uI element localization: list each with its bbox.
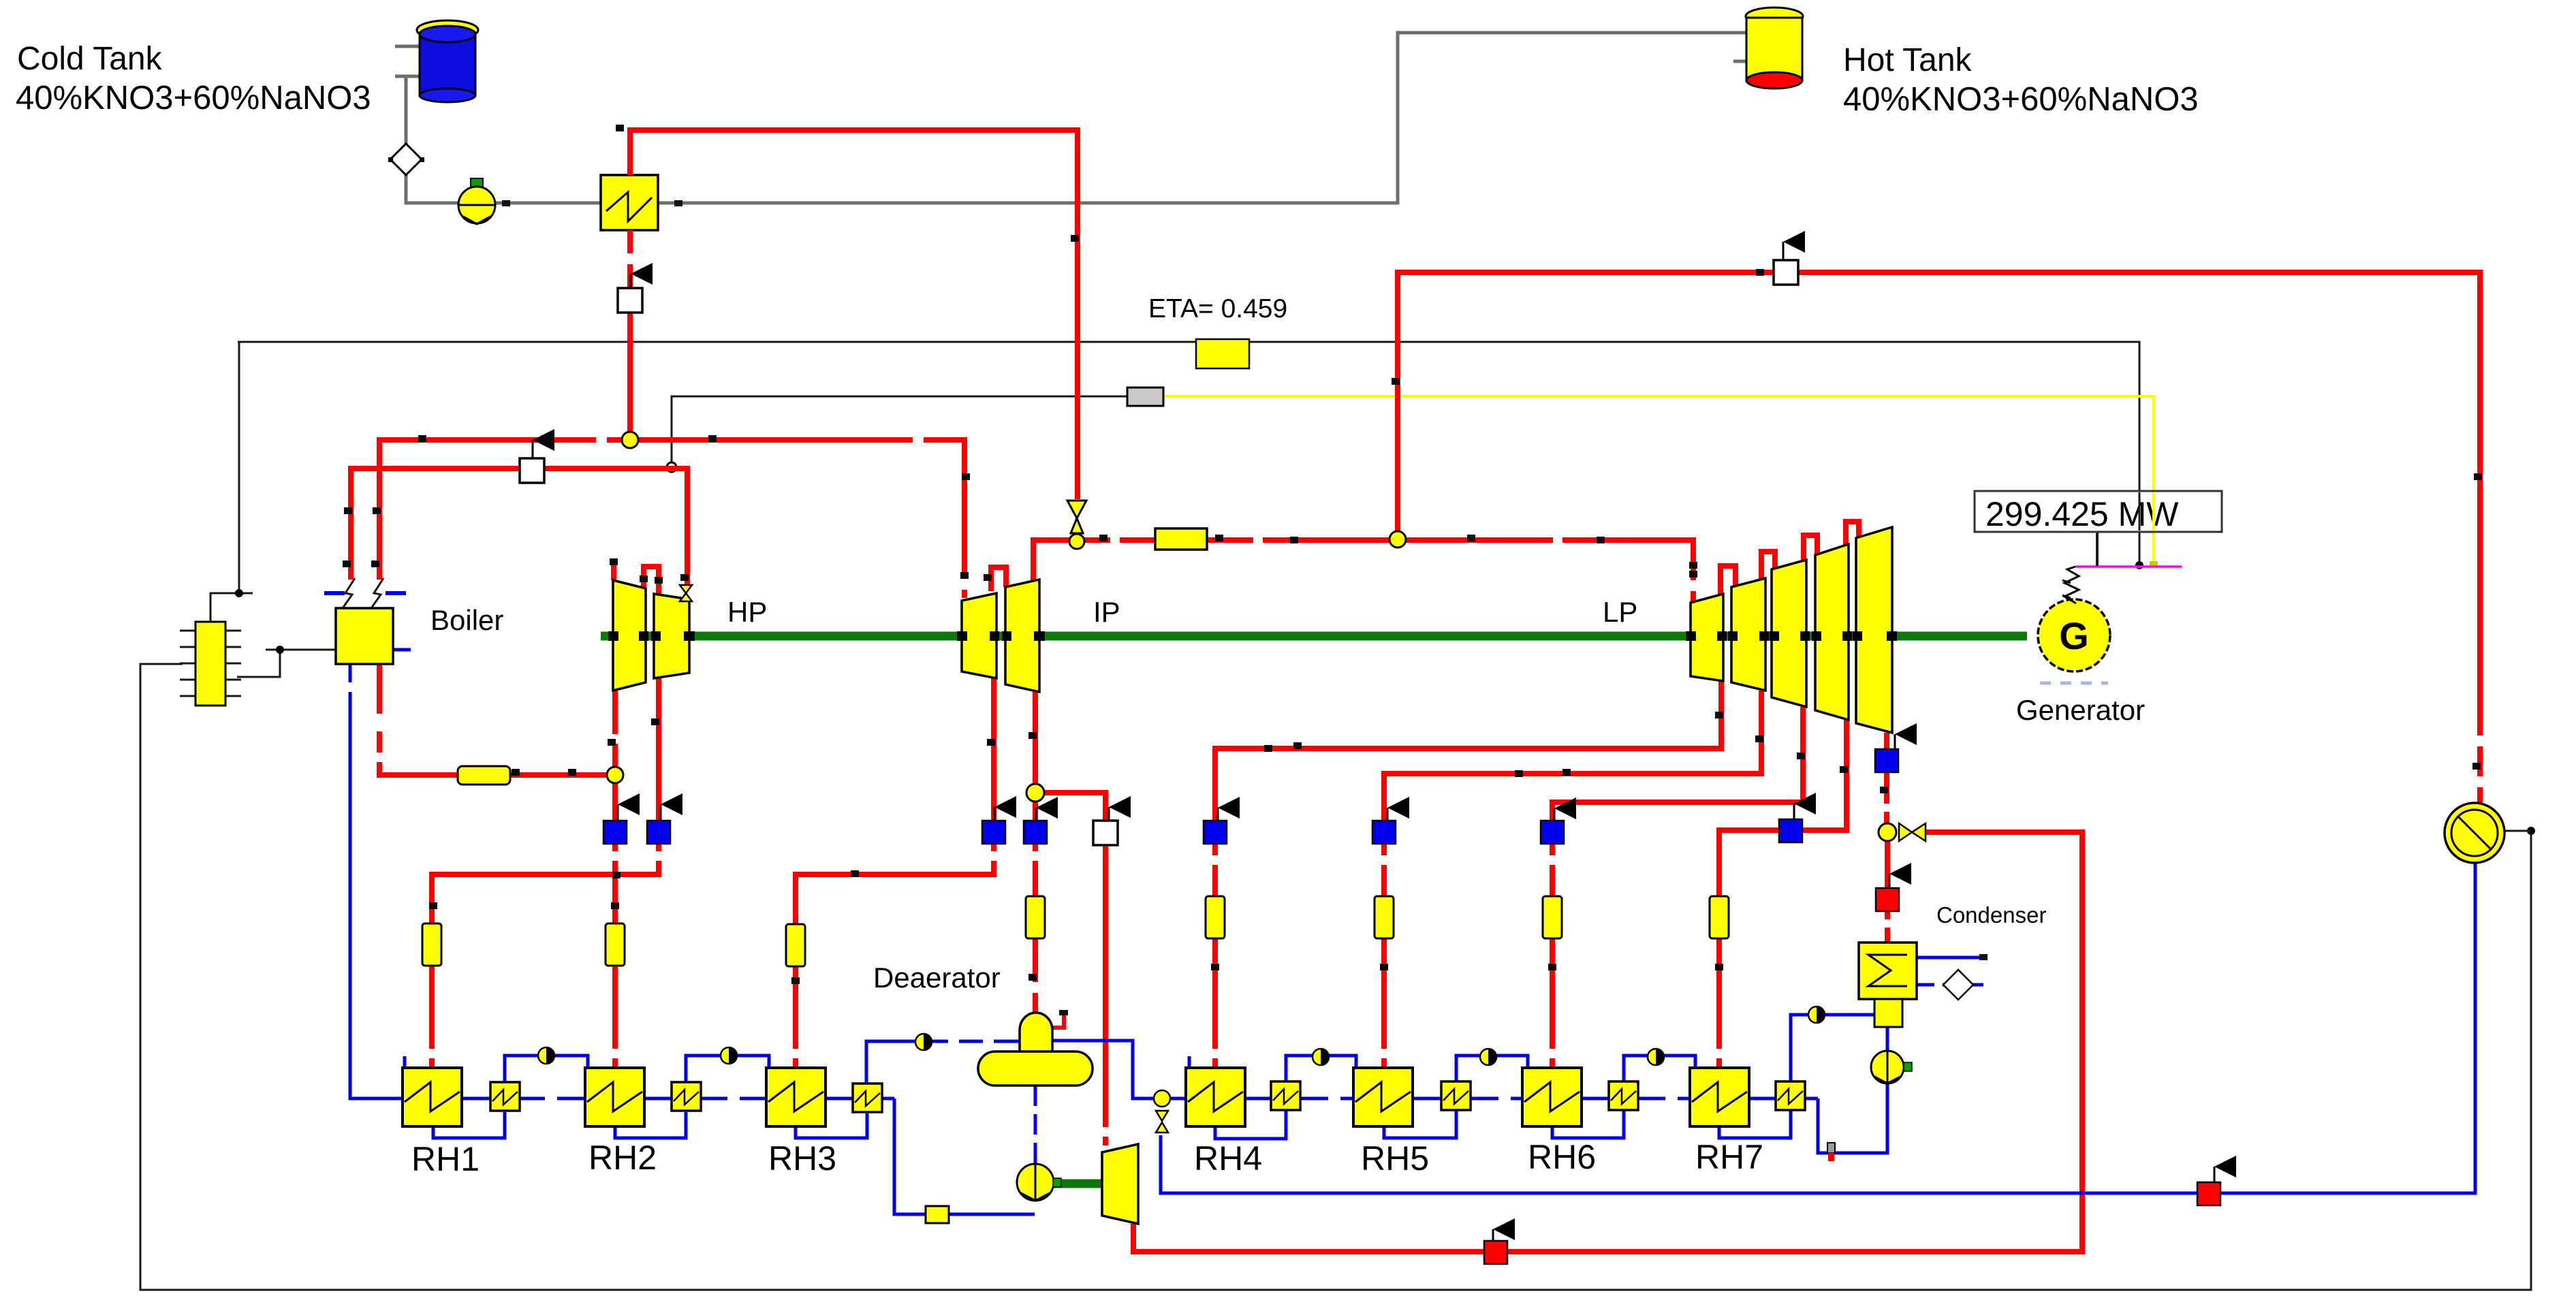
drain cooler DC1	[490, 1082, 520, 1111]
node condenser inlet	[1879, 823, 1896, 841]
tick at yellow line bottom	[2150, 561, 2158, 567]
stream marker node on blue line 5	[1480, 1049, 1496, 1065]
svg-text:299.425 MW: 299.425 MW	[1985, 495, 2179, 533]
feedwater heater RH7	[1690, 1068, 1749, 1126]
blue throttle square on RH7 extraction	[1779, 819, 1802, 842]
wire: red extraction IP2 to deaerator	[1033, 692, 1038, 1013]
svg-text:40%KNO3+60%NaNO3: 40%KNO3+60%NaNO3	[1843, 81, 2199, 118]
wire: blue boiler outlet stub	[393, 648, 411, 652]
red control square on condenser inlet	[1876, 888, 1899, 911]
flag marker on LP exhaust	[1895, 723, 1917, 749]
node IP extraction split	[1026, 784, 1044, 802]
feedwater heater RH2	[585, 1068, 644, 1126]
wire: red HX bottom drain to main-steam node	[627, 230, 633, 440]
white control square on BFPT supply line	[1093, 821, 1118, 845]
svg-text:RH1: RH1	[411, 1140, 480, 1178]
wire: blue RH4 drain loop	[1215, 1110, 1286, 1139]
turbine LP stage 4	[1815, 544, 1849, 720]
blue throttle square on RH1 extraction	[647, 821, 670, 844]
node IP admission	[1069, 534, 1084, 549]
feedwater heater RH1	[403, 1068, 462, 1126]
wire: red LP extraction 1 to RH4	[1215, 681, 1721, 1068]
blue throttle square on RH4 extraction	[1204, 821, 1227, 844]
wire: blue deaerator downcomer to feed pump	[1034, 1086, 1037, 1166]
turbine IP stage 2	[1005, 580, 1039, 692]
feedwater heater RH3	[766, 1068, 826, 1126]
turbine HP stage 1	[613, 580, 646, 691]
wire: red extraction HP to RH2	[612, 780, 618, 923]
restrictor on extraction to RH3	[786, 924, 805, 966]
wire: blue boiler top dashes	[324, 591, 406, 595]
restrictor on extraction to RH1	[422, 923, 441, 966]
red control square on cooling return line	[2197, 1182, 2220, 1205]
drain cooler DC4	[1271, 1081, 1300, 1110]
cold tank	[417, 20, 478, 102]
wire: magenta generator output bus	[2075, 565, 2182, 568]
wire: long black bus y=502 from economizer to generator column	[238, 342, 2139, 565]
wire: black bus segment across MW box	[2139, 492, 2141, 531]
cooling fan / CW circulator	[2445, 803, 2504, 863]
white dash gaps on lines	[346, 253, 2484, 1137]
wire: economizer right elbow to boiler	[237, 650, 336, 677]
wire: blue condenser hotwell to condensate pump	[1886, 1027, 1889, 1053]
flag marker on condenser inlet	[1889, 863, 1911, 888]
turbine LP stage 1	[1691, 594, 1723, 681]
blue throttle square on LP exhaust extraction	[1875, 749, 1898, 772]
measuring element on crossover line	[1155, 528, 1207, 550]
svg-text:RH7: RH7	[1695, 1138, 1763, 1176]
drain cooler DC3	[853, 1083, 882, 1112]
wire: yellow signal line from converter box to generator column	[1163, 396, 2154, 564]
generator excitation zigzag	[2062, 567, 2079, 603]
valve: RH4 condensate level valve	[1154, 1090, 1170, 1133]
wire: black tap line from HP main-steam pipe to converter box	[672, 396, 1127, 467]
restrictor on extraction to RH2	[606, 923, 625, 966]
wire: red cold-reheat return to boiler	[379, 664, 607, 775]
node crossover/bypass junction	[1389, 531, 1406, 548]
turbine HP stage 2	[654, 594, 689, 678]
deaerator storage tank	[978, 1051, 1093, 1086]
wire: blue RH1 drain loop	[433, 1112, 505, 1138]
wire: red LP extraction 4 to RH7	[1719, 720, 1847, 1068]
flag marker on HX drain	[631, 263, 653, 289]
wire: red hot bypass line from crossover node up and to cooling fan	[1398, 272, 2480, 804]
white control square on bypass line	[1774, 260, 1798, 285]
wire: red extraction HP stage2 to RH1	[432, 677, 659, 1068]
generator G	[2038, 599, 2110, 671]
tick marks on gray salt line	[502, 200, 510, 206]
feedwater heater RH6	[1522, 1068, 1582, 1126]
flag marker on RH2 extraction	[618, 793, 640, 821]
restrictor on extraction to RH6	[1543, 896, 1562, 938]
junction dot economizer-boiler link	[276, 646, 284, 654]
stream marker node on blue line 4	[1313, 1049, 1329, 1065]
power readout box 299.425 MW	[1975, 491, 2222, 533]
flag marker on RH6 extraction	[1554, 797, 1576, 821]
restrictor on extraction to RH7	[1710, 896, 1729, 938]
measuring element on cold-reheat line	[458, 766, 510, 785]
wire: blue condenser hotwell left to DC7 top	[1791, 1015, 1874, 1081]
wire: blue condensate link DC3 to feed pump	[894, 1098, 1035, 1214]
wire: blue DC2 to RH3 top loop	[686, 1056, 769, 1082]
wire: red deaerator pegging vent	[1052, 1014, 1064, 1028]
drain cooler DC7	[1776, 1081, 1805, 1110]
wire: red HX steam loop top (HX top to IP admission riser)	[630, 130, 1078, 499]
drain cooler DC5	[1441, 1081, 1471, 1110]
wire: blue deaerator feed from DC3	[866, 1041, 1020, 1083]
condenser	[1859, 943, 1917, 1027]
wire: blue condensate pump discharge to DC7	[1818, 1084, 1887, 1153]
wire: red extraction IP1 to RH3	[796, 678, 994, 1068]
boiler feed pump	[1017, 1164, 1061, 1201]
feedwater heater RH4	[1186, 1068, 1245, 1126]
stream marker node on blue line 1	[538, 1047, 554, 1064]
junction dot economizer riser	[235, 589, 243, 597]
wire: blue DC5 to RH6 top loop	[1456, 1056, 1528, 1081]
wire: black stub cooling fan to border	[2504, 830, 2531, 832]
svg-text:Boiler: Boiler	[430, 604, 503, 636]
restrictor on extraction to RH5	[1375, 896, 1394, 938]
flag marker on RH4 extraction	[1218, 797, 1240, 821]
svg-text:IP: IP	[1093, 596, 1120, 628]
svg-text:LP: LP	[1603, 596, 1637, 628]
flag marker on deaerator extraction	[1036, 797, 1058, 821]
wire: blue feedwater main boiler->RH1..RH3	[350, 664, 894, 1098]
svg-text:Deaerator: Deaerator	[873, 962, 1001, 994]
blue throttle square on RH2 extraction	[603, 821, 627, 844]
wire: blue deaerator outlet right to RH4 valve	[1051, 1041, 1186, 1098]
svg-text:G: G	[2059, 614, 2089, 657]
white control square on HX drain line	[618, 288, 642, 313]
wire: yellow signal segment across MW box	[2152, 492, 2155, 531]
svg-text:RH5: RH5	[1361, 1139, 1429, 1177]
condensate pump	[1871, 1051, 1912, 1083]
svg-text:Condenser: Condenser	[1936, 902, 2046, 928]
svg-text:RH3: RH3	[768, 1139, 836, 1177]
svg-text:HP: HP	[727, 596, 767, 628]
flag marker on RH5 extraction	[1387, 797, 1409, 821]
feedwater heater RH5	[1353, 1068, 1413, 1126]
wire: red HP exhaust to cold-reheat node	[612, 691, 618, 770]
wire: gray cold-salt line tank->pump->heat exchanger	[395, 33, 1747, 203]
wire: blue DC4 to RH5 top loop	[1286, 1056, 1356, 1081]
wire: blue RH5 drain loop	[1384, 1110, 1456, 1138]
hot tank	[1746, 7, 1803, 89]
efficiency box on signal bus	[1196, 339, 1249, 368]
wire: blue condenser CW stubs	[1917, 956, 1984, 960]
wire: red IP crossover hump	[991, 567, 1006, 591]
wire: blue RH6 drain loop	[1552, 1110, 1624, 1138]
node main-steam/HX junction	[622, 432, 638, 448]
flag marker on RH7 extraction	[1794, 793, 1816, 819]
restrictor on extraction to deaerator	[1026, 896, 1045, 938]
restrictor on extraction to RH4	[1206, 896, 1225, 938]
wire: green turbine shaft	[601, 632, 2027, 641]
wire: blue RH2 drain loop	[615, 1112, 686, 1138]
condenser makeup diamond	[1943, 970, 1973, 1000]
wire: blue cooling-circuit long return line	[1161, 862, 2475, 1193]
wire: red IP exhaust to LP inlet crossover y=793	[1033, 540, 1693, 603]
wire: red hot-reheat line boiler to IP inlet y=646	[379, 440, 964, 598]
wire: blue DC1 to RH2 top loop	[505, 1056, 588, 1082]
drain cooler DC6	[1609, 1081, 1638, 1110]
flag marker on bypass line	[1783, 231, 1805, 260]
wire: red main-steam line boiler to HP valve y=688	[351, 469, 687, 586]
wire: blue condensate main RH4..DC7	[1186, 1097, 1818, 1101]
deaerator dome	[1020, 1013, 1052, 1054]
wire: red LP stage humps	[1721, 522, 1859, 594]
flag marker on cooling return	[2214, 1156, 2236, 1182]
svg-text:40%KNO3+60%NaNO3: 40%KNO3+60%NaNO3	[16, 80, 371, 116]
blue throttle square on RH5 extraction	[1372, 821, 1396, 844]
flag marker on RH3 extraction	[994, 796, 1016, 821]
wire: green BFPT shaft	[1054, 1180, 1103, 1188]
boiler connection break symbols	[343, 578, 383, 608]
svg-text:Hot Tank: Hot Tank	[1843, 42, 1973, 78]
wire: blue RH1 vent stub	[403, 1056, 407, 1068]
blue throttle square on deaerator extraction	[1024, 821, 1047, 844]
flag marker on RH1 extraction	[661, 793, 682, 821]
stream marker node on blue line 2	[721, 1047, 737, 1064]
svg-text:Cold Tank: Cold Tank	[17, 41, 163, 77]
node cold-reheat junction	[607, 767, 623, 783]
svg-text:RH2: RH2	[588, 1139, 657, 1177]
condensate throttle box	[926, 1206, 949, 1223]
wire: red LP exhaust down to condenser	[1887, 733, 1887, 943]
flag marker on bottom line	[1493, 1218, 1515, 1241]
splitter diamond on cold-salt line	[390, 144, 422, 175]
wire: blue DC6 to RH7 top loop	[1624, 1056, 1695, 1081]
flag marker on BFPT supply	[1109, 796, 1131, 821]
stream marker node on blue line 6	[1648, 1049, 1664, 1065]
flag marker on main steam	[533, 429, 554, 458]
shaft black couplings	[608, 631, 1897, 641]
turbine LP stage 3	[1772, 560, 1806, 707]
svg-text:Generator: Generator	[2016, 694, 2145, 726]
wire: black page-border measurement loop (left, bottom, right)	[140, 664, 2531, 1290]
wire: black stub MW-box to magenta bus	[2096, 532, 2099, 566]
valve: IP admission stop/control valve	[1067, 501, 1086, 533]
wire: red LP extraction 3 to RH6	[1552, 707, 1803, 1068]
svg-text:ETA= 0.459: ETA= 0.459	[1148, 294, 1287, 323]
wire: red HP stage stub and crossover hump	[614, 563, 659, 594]
converter box (gray) on signal line	[1127, 387, 1163, 406]
wire: black economizer signal riser to long top bus	[210, 342, 253, 622]
BFP turbine	[1102, 1144, 1138, 1224]
valve: HP inlet control valve	[680, 585, 692, 601]
drain cooler DC2	[672, 1082, 701, 1111]
white control square on main steam line	[520, 458, 544, 483]
stream marker node on blue line 3	[915, 1034, 932, 1050]
stream marker node on blue line 7	[1808, 1007, 1825, 1023]
svg-text:RH6: RH6	[1528, 1138, 1596, 1176]
cold-salt pump P-salt	[458, 178, 495, 224]
valve: condenser dump valve	[1899, 823, 1926, 841]
wire: blue RH4 vent stub	[1188, 1056, 1191, 1068]
wire: red condenser bypass loop right and bottom to BFPT exhaust	[1133, 832, 2082, 1252]
junction dot on magenta line	[2135, 561, 2143, 569]
boiler	[336, 608, 393, 664]
turbine LP stage 2	[1731, 578, 1765, 691]
wire: red LP extraction 2 to RH5	[1384, 691, 1761, 1068]
small white tap circle on main-steam line	[667, 462, 676, 472]
wire: blue RH7 drain loop	[1719, 1110, 1791, 1138]
blue throttle square on RH3 extraction	[982, 821, 1005, 844]
blue throttle square on RH6 extraction	[1541, 821, 1564, 844]
economizer / flue-gas heater	[180, 622, 241, 706]
junction dot at cooling-fan corner	[2527, 827, 2535, 835]
turbine LP stage 5	[1856, 527, 1892, 733]
red control square on bottom exhaust line	[1484, 1241, 1507, 1264]
salt-steam heat exchanger (charging HX)	[601, 175, 658, 230]
turbine IP stage 1	[962, 593, 996, 678]
svg-text:RH4: RH4	[1194, 1139, 1262, 1177]
wire: blue RH3 drain loop	[796, 1113, 867, 1138]
gray/red tick on pump discharge	[1827, 1143, 1835, 1153]
wire: red branch to BFP turbine	[1043, 793, 1105, 1145]
